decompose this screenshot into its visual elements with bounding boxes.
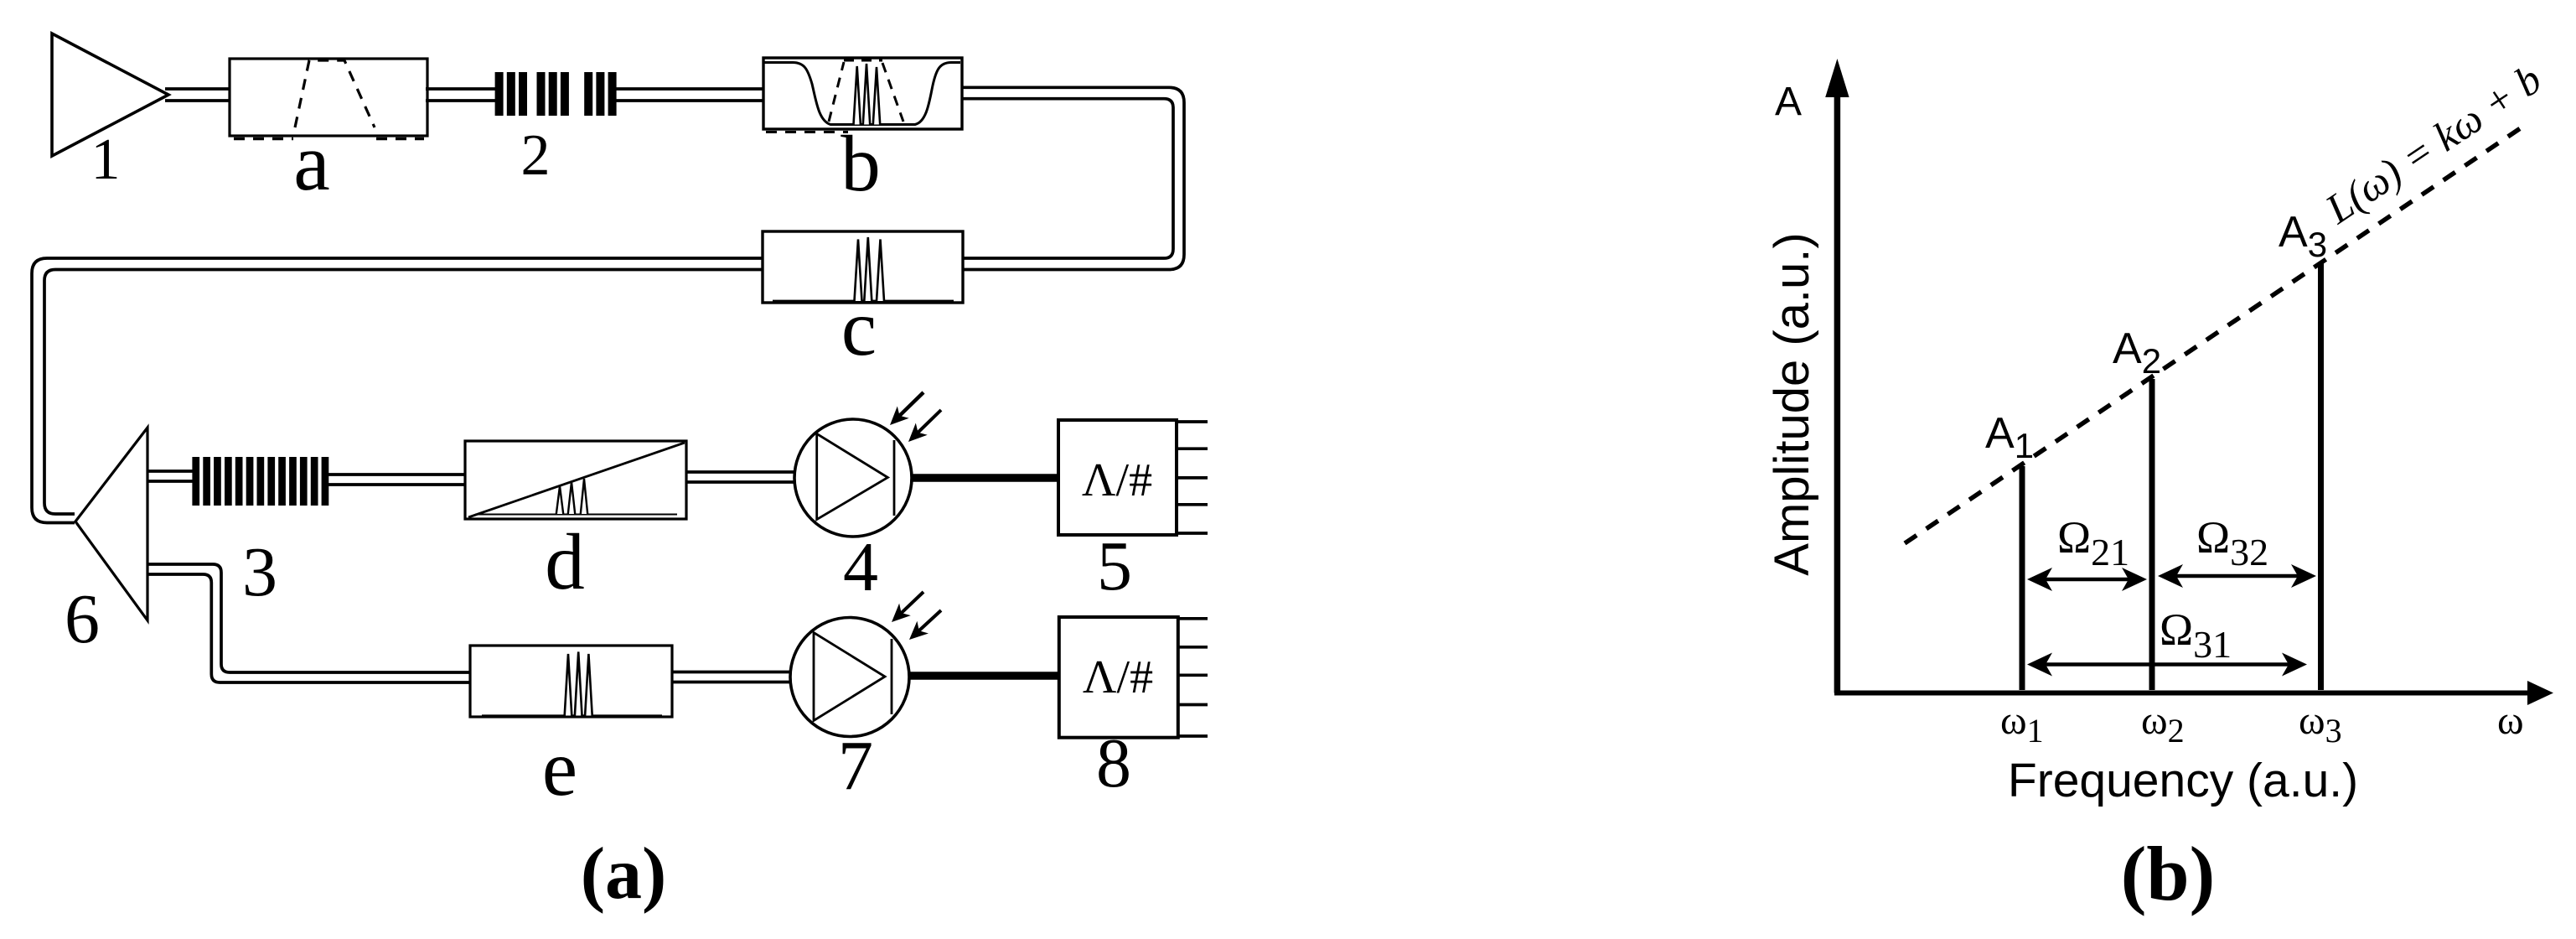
svg-text:(b): (b) <box>2121 831 2215 916</box>
svg-text:4: 4 <box>843 528 878 606</box>
arrow O31 <box>2027 653 2307 677</box>
svg-text:e: e <box>542 724 577 812</box>
coupler 6 <box>75 428 147 620</box>
svg-text:a: a <box>293 117 330 208</box>
wire coupler to coil 3 <box>147 471 194 481</box>
fiber Bragg grating 2 <box>495 72 617 116</box>
box d (dispersive element) <box>465 441 686 519</box>
wire coupler to box e <box>147 564 472 682</box>
svg-text:d: d <box>545 517 585 606</box>
svg-text:Λ/#: Λ/# <box>1082 454 1152 506</box>
box a (tunable filter) <box>230 59 427 139</box>
svg-text:1: 1 <box>91 127 121 192</box>
svg-text:5: 5 <box>1097 527 1132 605</box>
svg-text:b: b <box>841 119 881 208</box>
wire box a to grating 2 <box>426 89 498 101</box>
svg-text:Frequency (a.u.): Frequency (a.u.) <box>2008 754 2358 807</box>
wire box e to photodetector 7 <box>672 672 793 682</box>
svg-text:8: 8 <box>1096 724 1131 802</box>
fiber coil 3 <box>192 457 328 506</box>
electrical wire 7 to 8 <box>909 672 1059 680</box>
photodetector 7 <box>790 618 909 737</box>
wire loop b to c <box>962 87 1184 269</box>
svg-text:2: 2 <box>521 123 551 188</box>
spectral line w1 <box>2020 466 2025 690</box>
spectral line w3 <box>2318 262 2324 690</box>
photon arrows 4 <box>890 392 941 442</box>
svg-text:ω: ω <box>2497 698 2524 743</box>
box b (programmable filter) <box>763 58 962 132</box>
signal analyzer 5 <box>1058 420 1208 535</box>
svg-text:(a): (a) <box>581 833 667 915</box>
svg-text:3: 3 <box>242 533 277 611</box>
svg-text:A: A <box>1775 80 1802 124</box>
svg-text:Λ/#: Λ/# <box>1083 651 1153 703</box>
laser 1 <box>52 34 168 156</box>
wire coil 3 to box d <box>328 475 467 485</box>
svg-text:7: 7 <box>838 727 873 805</box>
x axis <box>1834 681 2553 705</box>
box e (comb filter) <box>470 646 672 717</box>
photon arrows 7 <box>892 592 941 640</box>
svg-text:Amplitude (a.u.): Amplitude (a.u.) <box>1765 232 1819 575</box>
box c (comb filter) <box>763 231 963 303</box>
photodetector 4 <box>794 419 912 537</box>
svg-text:6: 6 <box>65 580 100 658</box>
svg-text:c: c <box>841 283 877 372</box>
wire laser to box a <box>165 89 231 101</box>
electrical wire 4 to 5 <box>912 474 1058 482</box>
wire grating 2 to box b <box>614 89 765 101</box>
signal analyzer 8 <box>1059 617 1208 738</box>
wire box d to photodetector 4 <box>686 472 796 482</box>
arrow O32 <box>2158 564 2316 588</box>
wire loop c to coupler 6 <box>32 258 763 523</box>
spectral line w2 <box>2149 379 2155 690</box>
dashed fit line L <box>1905 122 2529 543</box>
arrow O21 <box>2027 568 2147 591</box>
y axis <box>1825 59 1849 693</box>
